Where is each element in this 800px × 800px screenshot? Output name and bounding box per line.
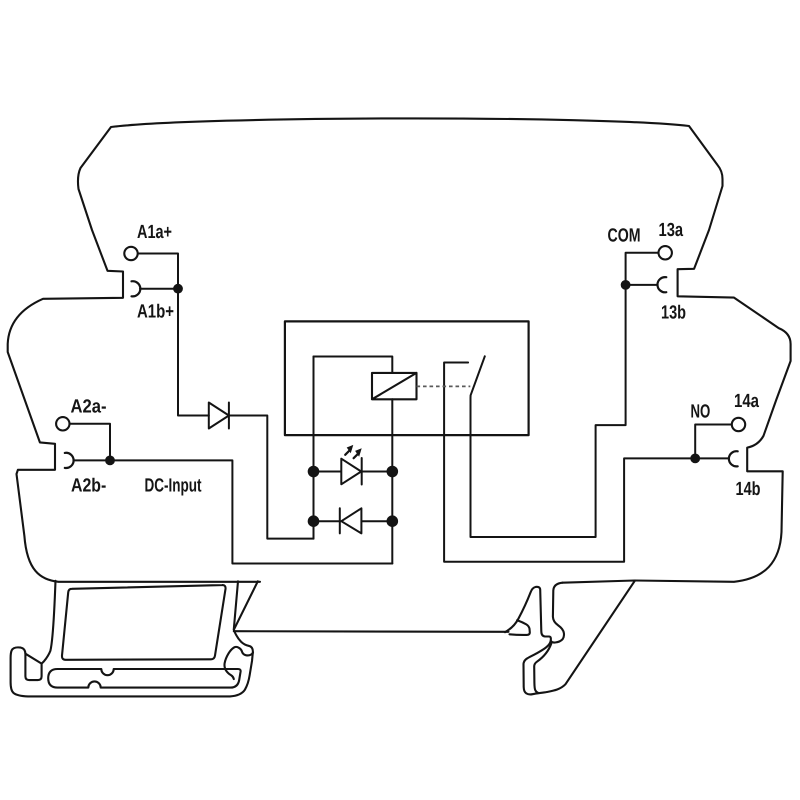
terminal 13b hook [657,277,666,292]
left foot: outer hook + bar silhouette [11,581,258,697]
wire A2 bottom path [110,460,392,563]
staple to coil [314,357,393,373]
right latch: bar with rise from rail [505,581,635,695]
LED arrowheads [347,445,354,453]
svg-text:A1b+: A1b+ [137,302,174,323]
LED D2 [314,458,393,485]
wire A1 down to diode D1 [178,289,209,416]
terminal A2b hook [65,453,74,468]
module body outline [8,118,791,582]
junction bridge top-left [308,466,320,478]
wire 13a to COM junction [626,253,658,285]
relay coil K1 [372,373,417,399]
wire A2b hook to junction [73,459,110,461]
wire A1b to junction [140,288,178,290]
junction bridge top-right [387,466,399,478]
svg-text:13b: 13b [661,302,686,323]
left foot: slot with bumps [48,669,240,688]
left rail [313,357,315,539]
junction COM [621,280,631,290]
diode D1 [209,403,229,429]
wire D1 to left rail [229,416,314,539]
svg-text:13a: 13a [659,220,684,241]
wire A2a to junction [70,424,110,461]
dashed actuation line [417,385,471,387]
terminal 14a circle [732,418,745,431]
svg-text:COM: COM [608,225,641,246]
contact fixed stub [444,363,695,562]
right latch: S-piece jog [551,583,564,643]
wire 14a to NO junction [695,425,731,459]
left foot: claw mouth diagonal [26,654,42,664]
wire A1a to junction [139,254,179,289]
svg-text:14b: 14b [736,479,761,500]
svg-text:A2a-: A2a- [71,397,107,418]
terminal A2a circle [56,417,69,430]
svg-text:A1a+: A1a+ [137,222,172,243]
wire COM junction to 13b [626,284,658,286]
junction bridge bottom-right [387,515,399,527]
junction A2b [105,456,115,466]
svg-text:DC-Input: DC-Input [145,476,202,497]
terminal COM circle 13a [659,246,672,259]
right latch: inner slot line [534,644,551,693]
junction bridge bottom-left [308,515,320,527]
DIN rail line [234,630,509,633]
relay outer box [285,321,529,435]
terminal 14b hook [729,451,738,466]
right latch: finger under rise [510,620,530,635]
junction A1b [173,284,183,294]
right rail from coil [391,399,393,563]
svg-text:A2b-: A2b- [71,475,106,496]
terminal A1b hook [132,281,141,296]
wire NO junction to 14b [695,457,729,459]
diode D3 [314,508,393,533]
svg-text:14a: 14a [734,391,759,412]
contact blade [471,285,626,537]
left foot: claw beak and valley [224,647,253,679]
left foot: plate [62,585,226,660]
LED arrows [345,449,359,458]
svg-text:NO: NO [691,402,711,423]
junction NO [690,454,700,464]
terminal A1a circle [124,247,137,260]
left foot: right leg inner line [234,581,238,629]
